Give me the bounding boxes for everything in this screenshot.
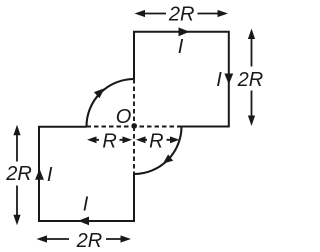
svg-text:I: I [47, 164, 53, 186]
current arrow on lower arc (points down-left) [163, 154, 173, 163]
dimension arrow left tip of right R (at node O dashed line) [136, 136, 146, 143]
wire: lower-right quarter-circle arc of radius R centered at O [134, 127, 182, 175]
current arrow on top edge of top square (points right) [179, 27, 190, 36]
svg-text:I: I [83, 194, 89, 216]
dimension line stubs of left R [96, 139, 124, 141]
dimension arrow up tip of right 2R [248, 29, 255, 40]
svg-text:I: I [216, 69, 222, 91]
svg-text:R: R [149, 130, 163, 152]
svg-text:2R: 2R [5, 163, 32, 185]
svg-text:I: I [178, 36, 184, 58]
node O dot [131, 123, 137, 129]
dimension arrow down tip of left 2R [13, 215, 20, 226]
dimension line segments of left 2R [16, 134, 18, 216]
dimension arrow right tip of bottom 2R [121, 235, 132, 242]
dimension arrow left tip of bottom 2R [37, 235, 48, 242]
svg-text:O: O [116, 106, 132, 128]
current arrow on bottom edge of bottom square (points left) [78, 217, 89, 226]
current arrow on left edge of bottom square (points up) [35, 169, 44, 180]
wire: top square loop solid edges (left, top with corner, right, part of bottom) [134, 32, 229, 127]
wire: top square dashed corner segments through node O [134, 79, 182, 127]
dimension line segments of right 2R [251, 38, 253, 117]
dimension line segments of bottom 2R [46, 238, 122, 240]
svg-text:2R: 2R [237, 69, 264, 91]
wire: bottom square dashed corner segments through node O [87, 127, 135, 175]
current arrow on upper arc (points up-right) [94, 88, 105, 98]
dimension arrow right tip of right R (at lower arc) [170, 136, 180, 143]
dimension arrow left tip of left R [87, 136, 97, 143]
dimension arrow left tip of top 2R [135, 10, 146, 17]
dimension arrow up tip of left 2R [13, 125, 20, 136]
current arrow on right edge of top square (points down) [224, 74, 233, 85]
svg-text:2R: 2R [76, 230, 103, 252]
dimension arrow right tip of left R (at node O dashed line) [123, 136, 133, 143]
svg-text:2R: 2R [168, 3, 195, 25]
dimension line segments of top 2R [144, 13, 219, 15]
wire: upper-left quarter-circle arc of radius R centered at O [87, 79, 135, 127]
dimension arrow down tip of right 2R [248, 116, 255, 127]
wire: bottom square loop solid edges [39, 127, 134, 221]
dimension line stubs of right R [145, 139, 172, 141]
dimension arrow right tip of top 2R [218, 10, 229, 17]
svg-text:R: R [102, 130, 116, 152]
